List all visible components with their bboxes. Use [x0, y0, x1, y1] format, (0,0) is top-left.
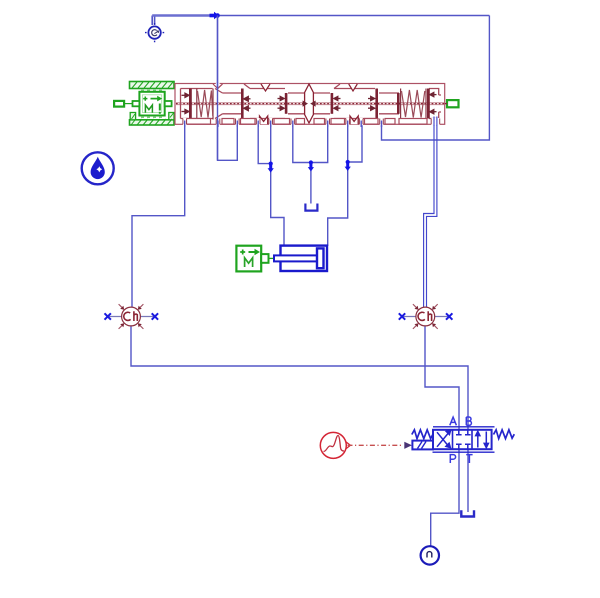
motor left shaft tab — [133, 101, 140, 106]
link shaft tab to rod — [269, 257, 275, 259]
gauge G2 (bottom circle) — [421, 546, 439, 564]
spring S2 (right spool spring) — [401, 89, 426, 120]
DV1 proportional rails — [433, 427, 495, 452]
spool land bar B7 — [427, 89, 430, 119]
DV1 proportional solenoid box — [412, 441, 433, 450]
check valve Ch2 (right) — [399, 304, 453, 329]
wire double pilot line from valve right port down to right check-valve Ch2 — [424, 122, 437, 307]
shaft link to right plug — [445, 103, 447, 105]
command dash-dot line to proportional solenoid — [348, 444, 404, 446]
valve inner chamber lines — [181, 84, 442, 124]
tank T1 (small vented tank under valve) — [305, 204, 317, 211]
spool land bar B2 — [285, 93, 288, 114]
wire through valve from node N1 down to U-loop under valve — [218, 16, 238, 161]
valve bottom feet and port notches — [187, 119, 428, 125]
wire double pilot line upper part (overlay) — [434, 117, 437, 127]
valve body outline — [175, 84, 445, 125]
spool land bar B5 — [397, 93, 400, 114]
check valve Ch1 (left) — [105, 304, 159, 329]
cylinder C1 body — [281, 246, 328, 271]
wire valve port5 through junction N2 down to cylinder left port — [271, 124, 284, 246]
valve drain notch M-shape left — [260, 116, 268, 124]
DV1 body three position boxes — [433, 430, 492, 449]
green port plug far left — [114, 101, 124, 107]
green hatched bracket top bar — [130, 82, 175, 89]
node N3 junction dot with down flow arrow — [308, 160, 314, 171]
green hatched bracket bottom bar with wings — [130, 113, 175, 126]
wire valve port4 to junction N2 — [258, 124, 271, 164]
wire directional valve port P to gauge G2 — [431, 450, 459, 546]
valve flow arrows a4 (left, toward B3) — [334, 96, 341, 110]
cylinder C1 piston — [317, 248, 324, 268]
valve flow arrows a5 (right, toward B4) — [368, 96, 375, 110]
valve spool shaft line — [176, 103, 444, 105]
valve flow arrows a1 (right) — [182, 93, 190, 113]
DV1 port labels — [450, 417, 473, 463]
motor M2 shaft tab — [261, 254, 268, 263]
wire U-loop valve ports 6-7 — [293, 124, 328, 163]
wire from gauge G1 to node N1 and across top to right side down to valve port — [152, 16, 489, 141]
wire valve port1 to left check-valve Ch1 — [132, 124, 185, 307]
valve top chevron notches — [213, 84, 357, 91]
spool land bar B8 — [241, 89, 244, 119]
valve flow arrows a2 (right, toward B2) — [278, 96, 285, 110]
drive motor M2 (green box) — [236, 246, 261, 272]
valve drain notch M-shape right — [350, 116, 358, 124]
valve flow arrows a6 (left, toward B7) — [430, 93, 437, 114]
valve flow arrows centre pair — [303, 102, 315, 106]
DV1 right spring — [494, 430, 515, 439]
node N4 junction dot with down flow arrow — [345, 160, 351, 171]
signal generator SG1 (red circle with waveform) — [320, 432, 350, 458]
valve bottom port mouths — [183, 83, 440, 126]
wire junction N3 down to tank T1 — [310, 163, 312, 204]
spool land bar B3 — [331, 93, 334, 114]
command arrowhead — [404, 442, 412, 449]
wire junction N4 jog to valve port9 — [348, 124, 362, 162]
wire through valve (overlay) — [217, 16, 219, 161]
wire right check-valve Ch2 to directional valve port A — [425, 326, 459, 430]
wire directional valve port T to tank T2 — [467, 450, 469, 512]
DV1 left box crossed arrows — [437, 430, 451, 448]
spring S1 (left spool spring) — [197, 89, 213, 120]
water drop indicator icon — [82, 152, 114, 184]
green port plug right — [447, 100, 459, 107]
motor right shaft tab — [165, 101, 172, 106]
valve centre hexagon land — [305, 84, 314, 123]
gauge G1 (top left circle) — [145, 23, 164, 42]
DV1 centre box blocked ports (T stubs) — [456, 430, 471, 449]
cylinder C1 piston rod — [274, 255, 317, 261]
electric motor M1 (green box with M) — [139, 90, 164, 117]
node N2 junction dot with down flow arrow — [268, 162, 274, 173]
spool land bar B4 — [375, 89, 378, 119]
valve flow arrows a3 (left, toward B8) — [244, 97, 251, 111]
DV1 right box straight arrows — [476, 431, 489, 447]
wire left check-valve Ch1 to directional valve port B — [131, 326, 468, 430]
link line port plug to motor — [124, 103, 132, 105]
wire valve port8 through junction N4 down to cylinder right port — [328, 124, 348, 246]
spool land bar B1 — [189, 89, 192, 119]
tank T2 (bottom tank) — [461, 510, 474, 516]
DV1 left spring over solenoid — [412, 430, 433, 439]
node N1 junction dot with flow arrow — [210, 12, 220, 19]
